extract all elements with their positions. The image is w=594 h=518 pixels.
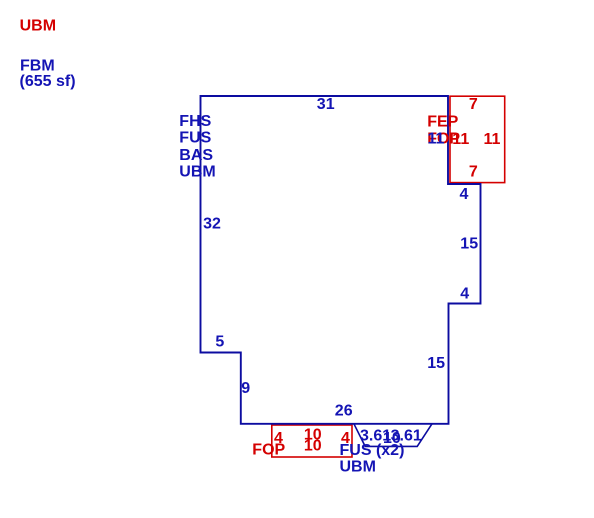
svg-text:11: 11 bbox=[484, 131, 501, 148]
svg-text:15: 15 bbox=[427, 355, 445, 372]
svg-text:5: 5 bbox=[215, 334, 224, 351]
svg-text:UBM: UBM bbox=[179, 164, 215, 181]
svg-text:FEP: FEP bbox=[427, 113, 458, 130]
svg-text:BAS: BAS bbox=[179, 147, 213, 164]
svg-text:9: 9 bbox=[241, 380, 250, 397]
svg-text:11: 11 bbox=[428, 131, 445, 148]
svg-text:32: 32 bbox=[203, 216, 221, 233]
svg-text:FHS: FHS bbox=[179, 113, 211, 130]
svg-text:10: 10 bbox=[304, 438, 322, 455]
svg-text:26: 26 bbox=[335, 403, 353, 420]
svg-text:UBM: UBM bbox=[340, 459, 376, 476]
svg-text:4: 4 bbox=[460, 186, 469, 203]
svg-text:7: 7 bbox=[469, 164, 478, 181]
svg-text:31: 31 bbox=[317, 96, 335, 113]
svg-text:4: 4 bbox=[341, 430, 350, 447]
svg-text:7: 7 bbox=[469, 96, 478, 113]
svg-text:UBM: UBM bbox=[20, 17, 56, 34]
svg-text:11: 11 bbox=[452, 131, 469, 148]
svg-text:FUS: FUS bbox=[179, 130, 211, 147]
svg-text:(655 sf): (655 sf) bbox=[20, 73, 76, 90]
svg-text:15: 15 bbox=[460, 236, 478, 253]
svg-text:4: 4 bbox=[460, 286, 469, 303]
svg-text:FOP: FOP bbox=[252, 442, 285, 459]
